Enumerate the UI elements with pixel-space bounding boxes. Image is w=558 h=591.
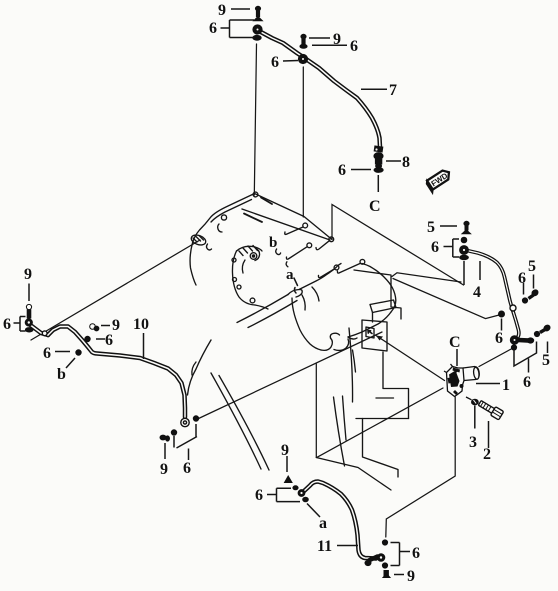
tube 10 bbox=[31, 326, 48, 336]
head side J-hooks bbox=[276, 223, 365, 293]
svg-text:9: 9 bbox=[160, 461, 168, 478]
svg-text:6: 6 bbox=[338, 162, 346, 179]
svg-text:9: 9 bbox=[24, 266, 32, 283]
svg-text:6: 6 bbox=[412, 545, 420, 562]
transition arcs from intake area bbox=[237, 295, 288, 323]
eye tube11 left bbox=[298, 490, 305, 497]
washer 3 bbox=[472, 399, 479, 405]
intake manifold hump bbox=[232, 246, 268, 310]
svg-text:6: 6 bbox=[350, 38, 358, 55]
outlet flange quad bbox=[370, 300, 396, 313]
leader manifold to tube4 clamp junction bbox=[392, 273, 461, 282]
bottom right to lobes bbox=[348, 312, 391, 337]
eye on tube10 dip bbox=[42, 331, 47, 336]
plate left edge bbox=[315, 364, 317, 458]
svg-text:3: 3 bbox=[469, 434, 477, 451]
leader manifold to washer 6 right bbox=[393, 279, 501, 319]
screw 9 bottom right bbox=[384, 571, 388, 576]
eye at tube10 bottom end bbox=[181, 418, 189, 426]
left lower edge from snout bbox=[292, 298, 321, 350]
banjo eye tube7 end1 bbox=[253, 25, 262, 34]
exhaust manifold hump bbox=[237, 264, 396, 351]
svg-text:6: 6 bbox=[43, 345, 51, 362]
svg-text:6: 6 bbox=[183, 460, 191, 477]
grommet 9 near tube10 bbox=[90, 324, 96, 330]
svg-text:9: 9 bbox=[281, 442, 289, 459]
svg-text:5: 5 bbox=[528, 258, 536, 275]
svg-text:9: 9 bbox=[333, 31, 341, 48]
banjo eye tube7 mid bbox=[298, 54, 307, 63]
inner detail arcs bbox=[302, 295, 305, 310]
svg-text:6: 6 bbox=[209, 20, 217, 37]
left end stack of tube10 bbox=[26, 304, 31, 309]
valve body bbox=[447, 367, 465, 397]
washer 6 b bbox=[76, 350, 81, 355]
leader component1 to plate corner bbox=[317, 388, 443, 457]
svg-text:4: 4 bbox=[473, 284, 481, 301]
washer 6 right-mid bbox=[499, 311, 505, 317]
svg-text:2: 2 bbox=[483, 446, 491, 463]
snout and top edge bbox=[288, 289, 302, 297]
svg-text:b: b bbox=[57, 366, 66, 383]
leader tube10 washers to plate corner bbox=[198, 332, 383, 419]
engine right side / flywheel housing bbox=[334, 270, 409, 477]
fitting 8 stack at tube7 bottom bbox=[374, 146, 383, 152]
banjo eye tube4 top bbox=[460, 246, 469, 255]
washer 6 on tube10 bbox=[85, 336, 90, 341]
washer 6 below banjo bbox=[511, 345, 516, 350]
svg-text:6: 6 bbox=[431, 239, 439, 256]
leader 9 top bbox=[231, 8, 250, 10]
svg-text:a: a bbox=[319, 515, 327, 532]
svg-text:9: 9 bbox=[407, 568, 415, 585]
tube 4 bbox=[467, 251, 519, 340]
engine deck outline bbox=[190, 194, 332, 286]
leader component1 to engine hole (arrow) bbox=[376, 336, 445, 381]
svg-text:1: 1 bbox=[502, 377, 510, 394]
washers tube11 right bbox=[382, 540, 387, 545]
oil pan arcs bbox=[188, 340, 270, 470]
svg-text:7: 7 bbox=[389, 82, 397, 99]
screw 5 top-right bbox=[464, 221, 469, 225]
leader component1 to washer bbox=[479, 348, 513, 367]
svg-text:6: 6 bbox=[3, 316, 11, 333]
svg-text:6: 6 bbox=[105, 332, 113, 349]
svg-text:6: 6 bbox=[523, 374, 531, 391]
tube 11 bbox=[303, 482, 376, 559]
screw 9 tube11 left bbox=[285, 476, 293, 483]
washer below banjo tube4 bbox=[460, 255, 469, 259]
engine boss (leader target) bbox=[190, 233, 212, 250]
deck circle details bbox=[253, 192, 258, 197]
svg-text:8: 8 bbox=[402, 154, 410, 171]
svg-text:5: 5 bbox=[542, 352, 550, 369]
washers at tube10 bottom bbox=[193, 416, 198, 421]
svg-text:10: 10 bbox=[133, 316, 149, 333]
screw 9 top (head+shank+washer) bbox=[255, 6, 260, 10]
banjo assembly tube4 bottom bbox=[510, 336, 518, 344]
washer + bolt 5 right-mid bbox=[522, 298, 527, 303]
svg-text:6: 6 bbox=[495, 330, 503, 347]
leader tube7 end1 to deck bbox=[254, 44, 256, 195]
svg-text:5: 5 bbox=[427, 219, 435, 236]
svg-text:11: 11 bbox=[317, 538, 332, 555]
ring clamp on tube 4 bbox=[510, 305, 516, 311]
plug 9 bottom-left bbox=[160, 435, 166, 440]
leader component1 down to tube11 fitting bbox=[386, 397, 455, 537]
cylinder (white) bbox=[463, 367, 479, 381]
leader tube7 mid to deck bbox=[302, 67, 304, 217]
washer 6 near bolt5c bbox=[534, 331, 539, 336]
washer 6 above tube4 bbox=[461, 237, 467, 243]
screw 9 mid bbox=[301, 34, 306, 38]
washer under banjo 1 bbox=[253, 35, 261, 40]
banjo tube11 right bbox=[377, 554, 385, 562]
leader deck corner up and to tube4 parts bbox=[332, 205, 464, 286]
svg-text:b: b bbox=[269, 235, 277, 251]
tube 7 bbox=[259, 31, 380, 147]
svg-text:9: 9 bbox=[218, 2, 226, 19]
svg-text:a: a bbox=[286, 267, 294, 283]
leader from left bracket to engine boss bbox=[31, 240, 200, 340]
plate bottom edge bbox=[316, 458, 391, 491]
svg-text:6: 6 bbox=[518, 270, 526, 287]
tube centerlines (double-line effect) bbox=[31, 31, 519, 559]
svg-text:C: C bbox=[449, 334, 461, 351]
svg-text:9: 9 bbox=[112, 317, 120, 334]
bottom toe lobes bbox=[321, 338, 332, 350]
svg-text:6: 6 bbox=[271, 54, 279, 71]
bolt 2 (outlined) bbox=[477, 399, 503, 420]
svg-text:6: 6 bbox=[255, 487, 263, 504]
right edge bbox=[362, 264, 396, 313]
bolt 5c bbox=[540, 330, 545, 333]
svg-text:C: C bbox=[369, 198, 381, 215]
